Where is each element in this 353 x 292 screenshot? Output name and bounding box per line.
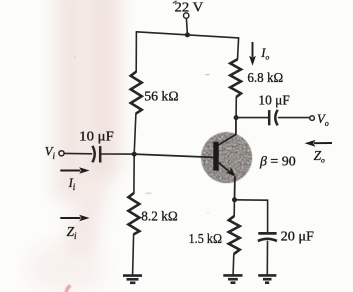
arrow Zo: [305, 140, 333, 147]
transistor Q1 base bar: [213, 142, 218, 171]
arrow Zi: [60, 215, 89, 222]
wire emitter node to C3: [235, 200, 268, 232]
wire top rail: [136, 32, 238, 38]
stray tick above 22V: [173, 1, 177, 3]
arrow Ii: [60, 167, 89, 174]
svg-text:1.5 kΩ: 1.5 kΩ: [189, 232, 222, 247]
speckle marks: [74, 56, 209, 214]
wire R4 to ground: [232, 254, 235, 274]
transistor emitter arrowhead: [226, 167, 236, 176]
ground G3: [258, 275, 276, 282]
arrow Io: [249, 42, 256, 66]
svg-text:8.2 kΩ: 8.2 kΩ: [141, 210, 177, 225]
transistor Q1 body: [201, 132, 252, 183]
resistor R3 6.8k zigzag: [230, 59, 241, 97]
resistor R2 8.2k zigzag: [128, 193, 139, 234]
supply terminal 22V circle: [184, 13, 189, 18]
wire node A to R2 top: [133, 154, 135, 193]
resistor R4 1.5k zigzag: [229, 216, 240, 254]
capacitor C1 10uF input: [92, 146, 100, 163]
wire emitter down: [234, 177, 236, 200]
svg-text:56 kΩ: 56 kΩ: [144, 90, 178, 105]
wire collector into transistor: [218, 118, 236, 146]
svg-text:10 μF: 10 μF: [79, 129, 114, 144]
ground G2: [223, 275, 242, 282]
wire Vi to C1: [64, 152, 91, 154]
node emitter junction: [232, 197, 237, 202]
wire emitter node to R4: [233, 200, 235, 216]
wire rail to R1 top: [135, 32, 137, 72]
wire rail to R3 top: [238, 38, 239, 59]
wire C2 to Vo terminal: [279, 117, 310, 119]
red ink mark bottom left: [66, 286, 71, 292]
svg-text:20 μF: 20 μF: [281, 230, 315, 245]
capacitor C2 10uF output: [269, 110, 278, 126]
wire base from node A: [134, 154, 213, 157]
wire R2 bottom to ground: [133, 234, 134, 274]
terminal Vi circle: [59, 151, 64, 156]
capacitor C3 20uF bypass: [258, 233, 277, 241]
wire R3 bottom to collector node: [235, 97, 237, 118]
wire C1 to node A: [101, 153, 134, 155]
scan streak vertical band: [26, 0, 119, 292]
svg-text:6.8 kΩ: 6.8 kΩ: [247, 71, 283, 86]
node A base divider junction: [132, 152, 137, 157]
svg-text:22 V: 22 V: [175, 0, 204, 15]
resistor R1 56k zigzag: [131, 72, 142, 114]
ground G1: [123, 276, 142, 283]
wire terminal to top rail: [185, 18, 188, 32]
transistor emitter diagonal: [218, 162, 233, 175]
terminal Vo circle: [310, 116, 315, 121]
svg-text:10 μF: 10 μF: [258, 93, 290, 108]
svg-text:β = 90: β = 90: [259, 153, 296, 168]
node collector junction: [234, 115, 239, 120]
wire collector node to C2: [236, 117, 268, 119]
node top junction: [185, 32, 190, 37]
wire R1 bottom to node A: [134, 114, 136, 154]
wire C3 to ground: [266, 241, 268, 274]
